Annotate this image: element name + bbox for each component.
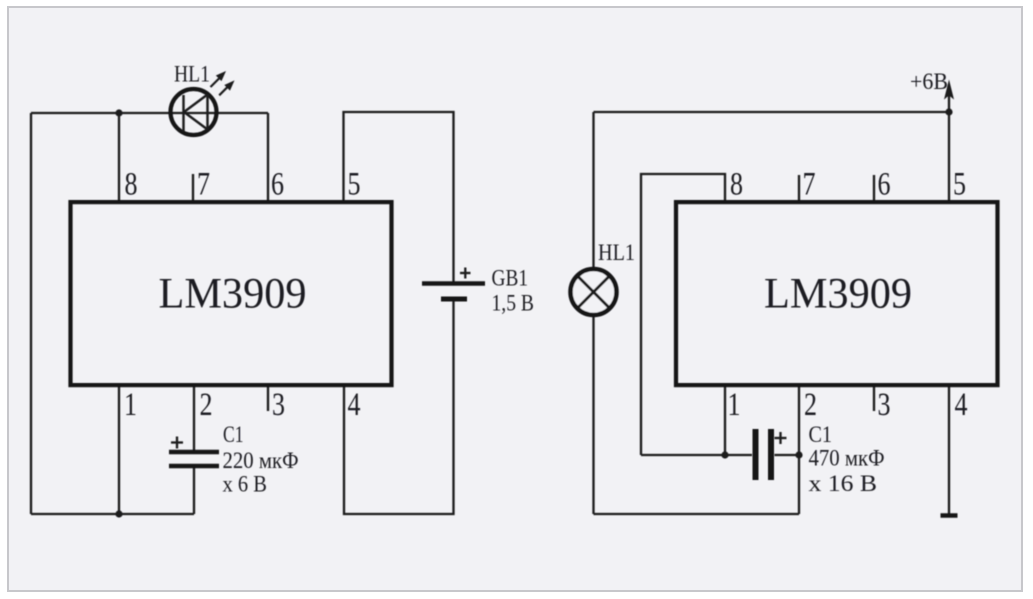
- svg-text:HL1: HL1: [174, 62, 210, 87]
- svg-text:8: 8: [125, 167, 138, 203]
- svg-text:x 6 В: x 6 В: [223, 472, 268, 497]
- svg-text:4: 4: [348, 387, 361, 423]
- svg-text:1,5 В: 1,5 В: [492, 291, 535, 316]
- svg-text:LM3909: LM3909: [159, 271, 307, 318]
- svg-text:5: 5: [348, 167, 361, 203]
- svg-text:GB1: GB1: [492, 266, 529, 291]
- svg-text:1: 1: [728, 387, 741, 423]
- svg-text:7: 7: [803, 167, 816, 203]
- svg-text:LM3909: LM3909: [764, 271, 912, 318]
- svg-text:8: 8: [730, 167, 743, 203]
- svg-text:7: 7: [197, 167, 210, 203]
- svg-text:+6В: +6В: [910, 69, 948, 94]
- svg-text:470 мкФ: 470 мкФ: [809, 446, 885, 471]
- svg-text:220 мкФ: 220 мкФ: [223, 448, 299, 473]
- svg-text:1: 1: [124, 387, 137, 423]
- svg-text:2: 2: [200, 387, 213, 423]
- svg-text:6: 6: [878, 167, 891, 203]
- svg-text:C1: C1: [223, 422, 244, 447]
- svg-text:C1: C1: [809, 422, 833, 447]
- svg-text:2: 2: [804, 387, 817, 423]
- svg-text:3: 3: [878, 387, 891, 423]
- svg-text:HL1: HL1: [598, 240, 635, 265]
- svg-text:5: 5: [953, 167, 966, 203]
- svg-text:6: 6: [271, 167, 284, 203]
- svg-text:x 16 В: x 16 В: [809, 471, 878, 496]
- svg-text:4: 4: [955, 387, 968, 423]
- svg-text:3: 3: [272, 387, 285, 423]
